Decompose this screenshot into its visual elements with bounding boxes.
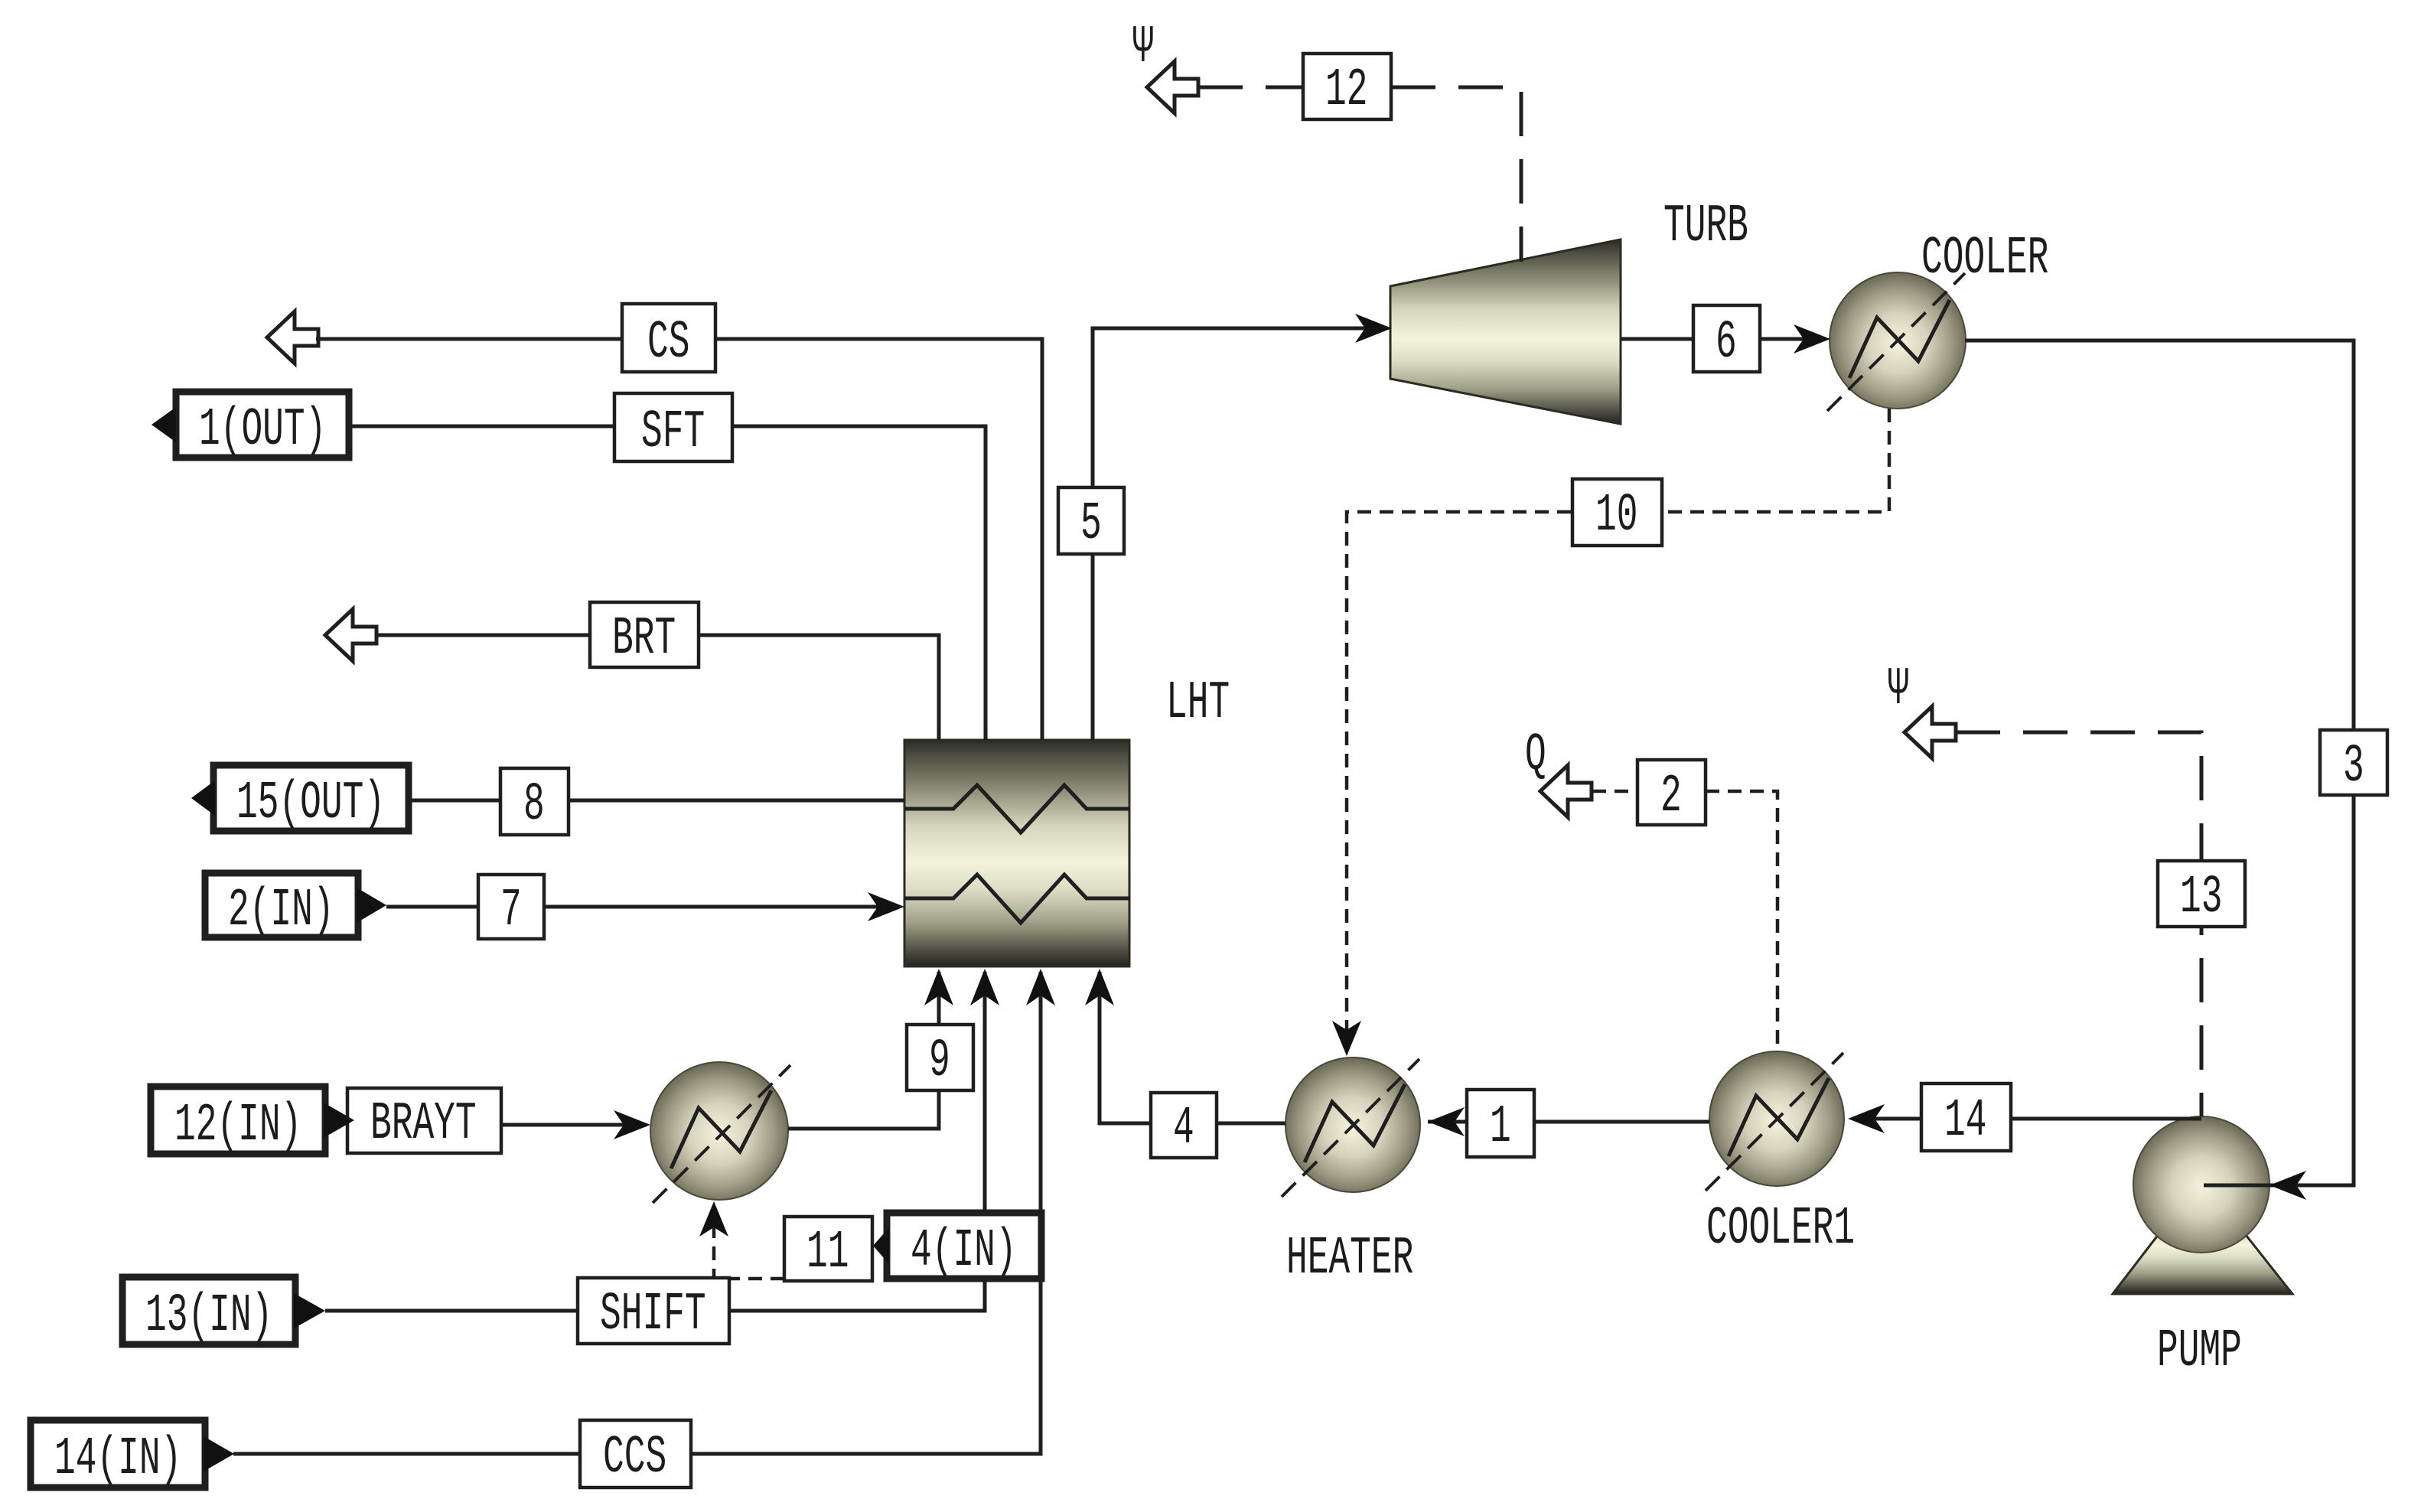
node 7 box [478,875,544,939]
dashed diagonal cooler1 [1706,1053,1843,1191]
svg-text:4(IN): 4(IN) [911,1220,1017,1281]
node 12(IN) connector box [151,1087,325,1154]
heater HEATER circle [1285,1057,1420,1192]
svg-text:2: 2 [1660,766,1682,826]
arrowhead into pump [2269,1171,2306,1200]
connector triangle 1(OUT) [152,407,176,442]
svg-text:11: 11 [806,1222,849,1282]
node 2 box [1637,760,1706,825]
svg-text:14: 14 [1944,1090,1986,1151]
wire stream 5: LHT top to turbine inlet [1093,328,1383,740]
zigzag cooler [1849,300,1950,378]
wire CS line: arrow to CS box to riser [316,339,1042,740]
arrowhead into LHT bottom x1227 [924,969,953,1005]
svg-text:BRT: BRT [612,608,676,669]
wire BRAYT to exchanger [501,1123,643,1127]
svg-text:CCS: CCS [603,1427,666,1488]
dashed diagonal exchanger [653,1065,790,1203]
svg-text:PUMP: PUMP [2157,1321,2242,1381]
svg-text:4: 4 [1173,1098,1194,1158]
node 15(OUT) connector box [213,765,409,831]
svg-text:1: 1 [1490,1097,1511,1157]
wire CCS to LHT bottom riser [691,972,1041,1454]
wire stream 3: cooler to pump [1965,341,2354,1185]
svg-text:Ψ: Ψ [1888,659,1909,719]
exchanger on BRAYT stream [650,1062,788,1200]
node 14 box [1921,1083,2011,1151]
node CCS box [580,1420,691,1488]
wire stream 4: heater to LHT bottom [1100,972,1285,1123]
node 1(OUT) connector box [176,392,349,458]
LHT heat exchanger block [904,740,1129,966]
heat stream 2 dotted: Q arrow to cooler1 [1592,790,1637,793]
wire stream 1: cooler1 to heater [1428,1120,1709,1124]
zigzag lower LHT [904,875,1129,923]
heat stream 11 dotted: to exchanger [714,1207,784,1279]
hollow arrow Q [1540,765,1592,817]
wire 13(IN) to SHIFT [325,1309,578,1313]
connector triangle 13(IN) [294,1293,325,1328]
cooler COOLER1 circle [1709,1051,1844,1186]
arrowhead into LHT left stream 7 [868,892,904,921]
hollow arrow BRT out [325,609,376,661]
dashed diagonal cooler [1827,273,1965,411]
svg-text:13(IN): 13(IN) [145,1286,272,1346]
wire SHIFT to LHT bottom riser [729,972,985,1311]
node CS box [622,304,715,372]
turbine TURB [1390,240,1621,424]
node 3 box [2320,730,2387,795]
node 12 box [1303,54,1391,119]
arrowhead into exchanger bottom dotted [699,1201,728,1237]
arrowhead into LHT bottom x1287 [970,969,999,1005]
arrowhead into LHT bottom x1360 [1026,969,1055,1005]
svg-text:15(OUT): 15(OUT) [236,773,385,833]
connector triangle 14(IN) [204,1436,234,1471]
node 9 box [907,1025,973,1090]
arrowhead into cooler [1794,324,1830,354]
dashed diagonal heater [1282,1059,1419,1197]
pump PUMP [2113,1116,2292,1294]
wire 2(IN) to 7 to LHT left [386,905,897,909]
connector triangle 4(IN) [873,1227,889,1264]
hollow arrow CS out [267,311,318,363]
svg-text:Q: Q [1525,725,1546,785]
hollow arrow W top [1147,61,1198,113]
svg-text:COOLER: COOLER [1921,228,2048,288]
svg-text:14(IN): 14(IN) [54,1429,181,1489]
wire 14(IN) to CCS [233,1452,580,1456]
arrowhead into cooler1 [1848,1104,1885,1133]
svg-text:COOLER1: COOLER1 [1706,1198,1855,1259]
node 13(IN) connector box [122,1277,295,1344]
work stream W to pump dashed via 13 [1956,732,2201,1116]
arrowhead into turbine [1355,314,1392,343]
svg-text:Ψ: Ψ [1132,17,1154,77]
cooler COOLER circle [1830,272,1966,409]
node 10 box [1572,479,1662,546]
svg-text:1(OUT): 1(OUT) [199,399,326,460]
connector triangle 2(IN) [357,888,386,923]
zigzag exchanger [671,1090,771,1168]
node 4(IN) connector box [887,1213,1041,1279]
svg-text:BRAYT: BRAYT [370,1093,477,1154]
node 4 box [1151,1093,1217,1158]
node 14(IN) connector box [31,1420,205,1488]
svg-text:7: 7 [500,880,522,940]
wire stream 14: pump top to cooler1 [1856,1117,2201,1121]
svg-text:9: 9 [929,1031,950,1091]
heat stream 10 dotted: cooler to heater [1347,409,1889,1050]
node SFT box [614,393,732,461]
wire 15(OUT) to 8 to LHT left [409,799,904,803]
node BRT box [590,602,699,667]
svg-text:5: 5 [1080,494,1102,554]
zigzag cooler1 [1729,1078,1829,1156]
svg-text:LHT: LHT [1166,673,1230,733]
svg-text:6: 6 [1716,312,1737,373]
node BRAYT box [347,1088,501,1153]
node 6 box [1693,305,1760,372]
arrowhead into heater [1428,1107,1465,1136]
zigzag heater [1305,1084,1405,1162]
svg-text:SFT: SFT [641,402,705,462]
arrowhead into exchanger [614,1110,650,1139]
svg-text:12: 12 [1325,60,1367,120]
svg-text:3: 3 [2343,736,2364,797]
svg-text:SHIFT: SHIFT [600,1284,706,1344]
connector triangle 15(OUT) [191,780,215,816]
svg-text:TURB: TURB [1663,196,1748,256]
node 1 box [1467,1090,1534,1157]
wire stream 9: exchanger to LHT bottom [788,972,939,1129]
node SHIFT box [578,1278,729,1344]
svg-text:13: 13 [2180,867,2222,927]
work stream W to 12 dashed [1198,86,1303,90]
connector triangle 12(IN) [324,1103,354,1138]
node 2(IN) connector box [205,873,358,937]
wire BRT line: arrow to BRT to riser [376,635,939,740]
wire SFT line: 1(OUT) to SFT to riser [349,426,986,740]
arrowhead into LHT bottom x1437 [1085,969,1114,1005]
svg-text:CS: CS [647,312,689,373]
node 8 box [500,768,569,835]
svg-text:HEATER: HEATER [1286,1228,1413,1289]
node 5 box [1058,487,1124,554]
zigzag upper LHT [904,785,1129,833]
node 13 box [2158,861,2245,927]
svg-text:12(IN): 12(IN) [174,1095,301,1155]
svg-text:2(IN): 2(IN) [228,880,334,940]
work stream 12 to turbine dashed [1391,87,1521,262]
arrowhead into heater top dotted [1332,1021,1361,1056]
svg-text:8: 8 [523,774,545,835]
svg-text:10: 10 [1595,485,1637,546]
hollow arrow W right [1905,706,1956,758]
node 11 box [784,1217,872,1281]
wire stream 6: turbine outlet to cooler [1621,337,1824,341]
